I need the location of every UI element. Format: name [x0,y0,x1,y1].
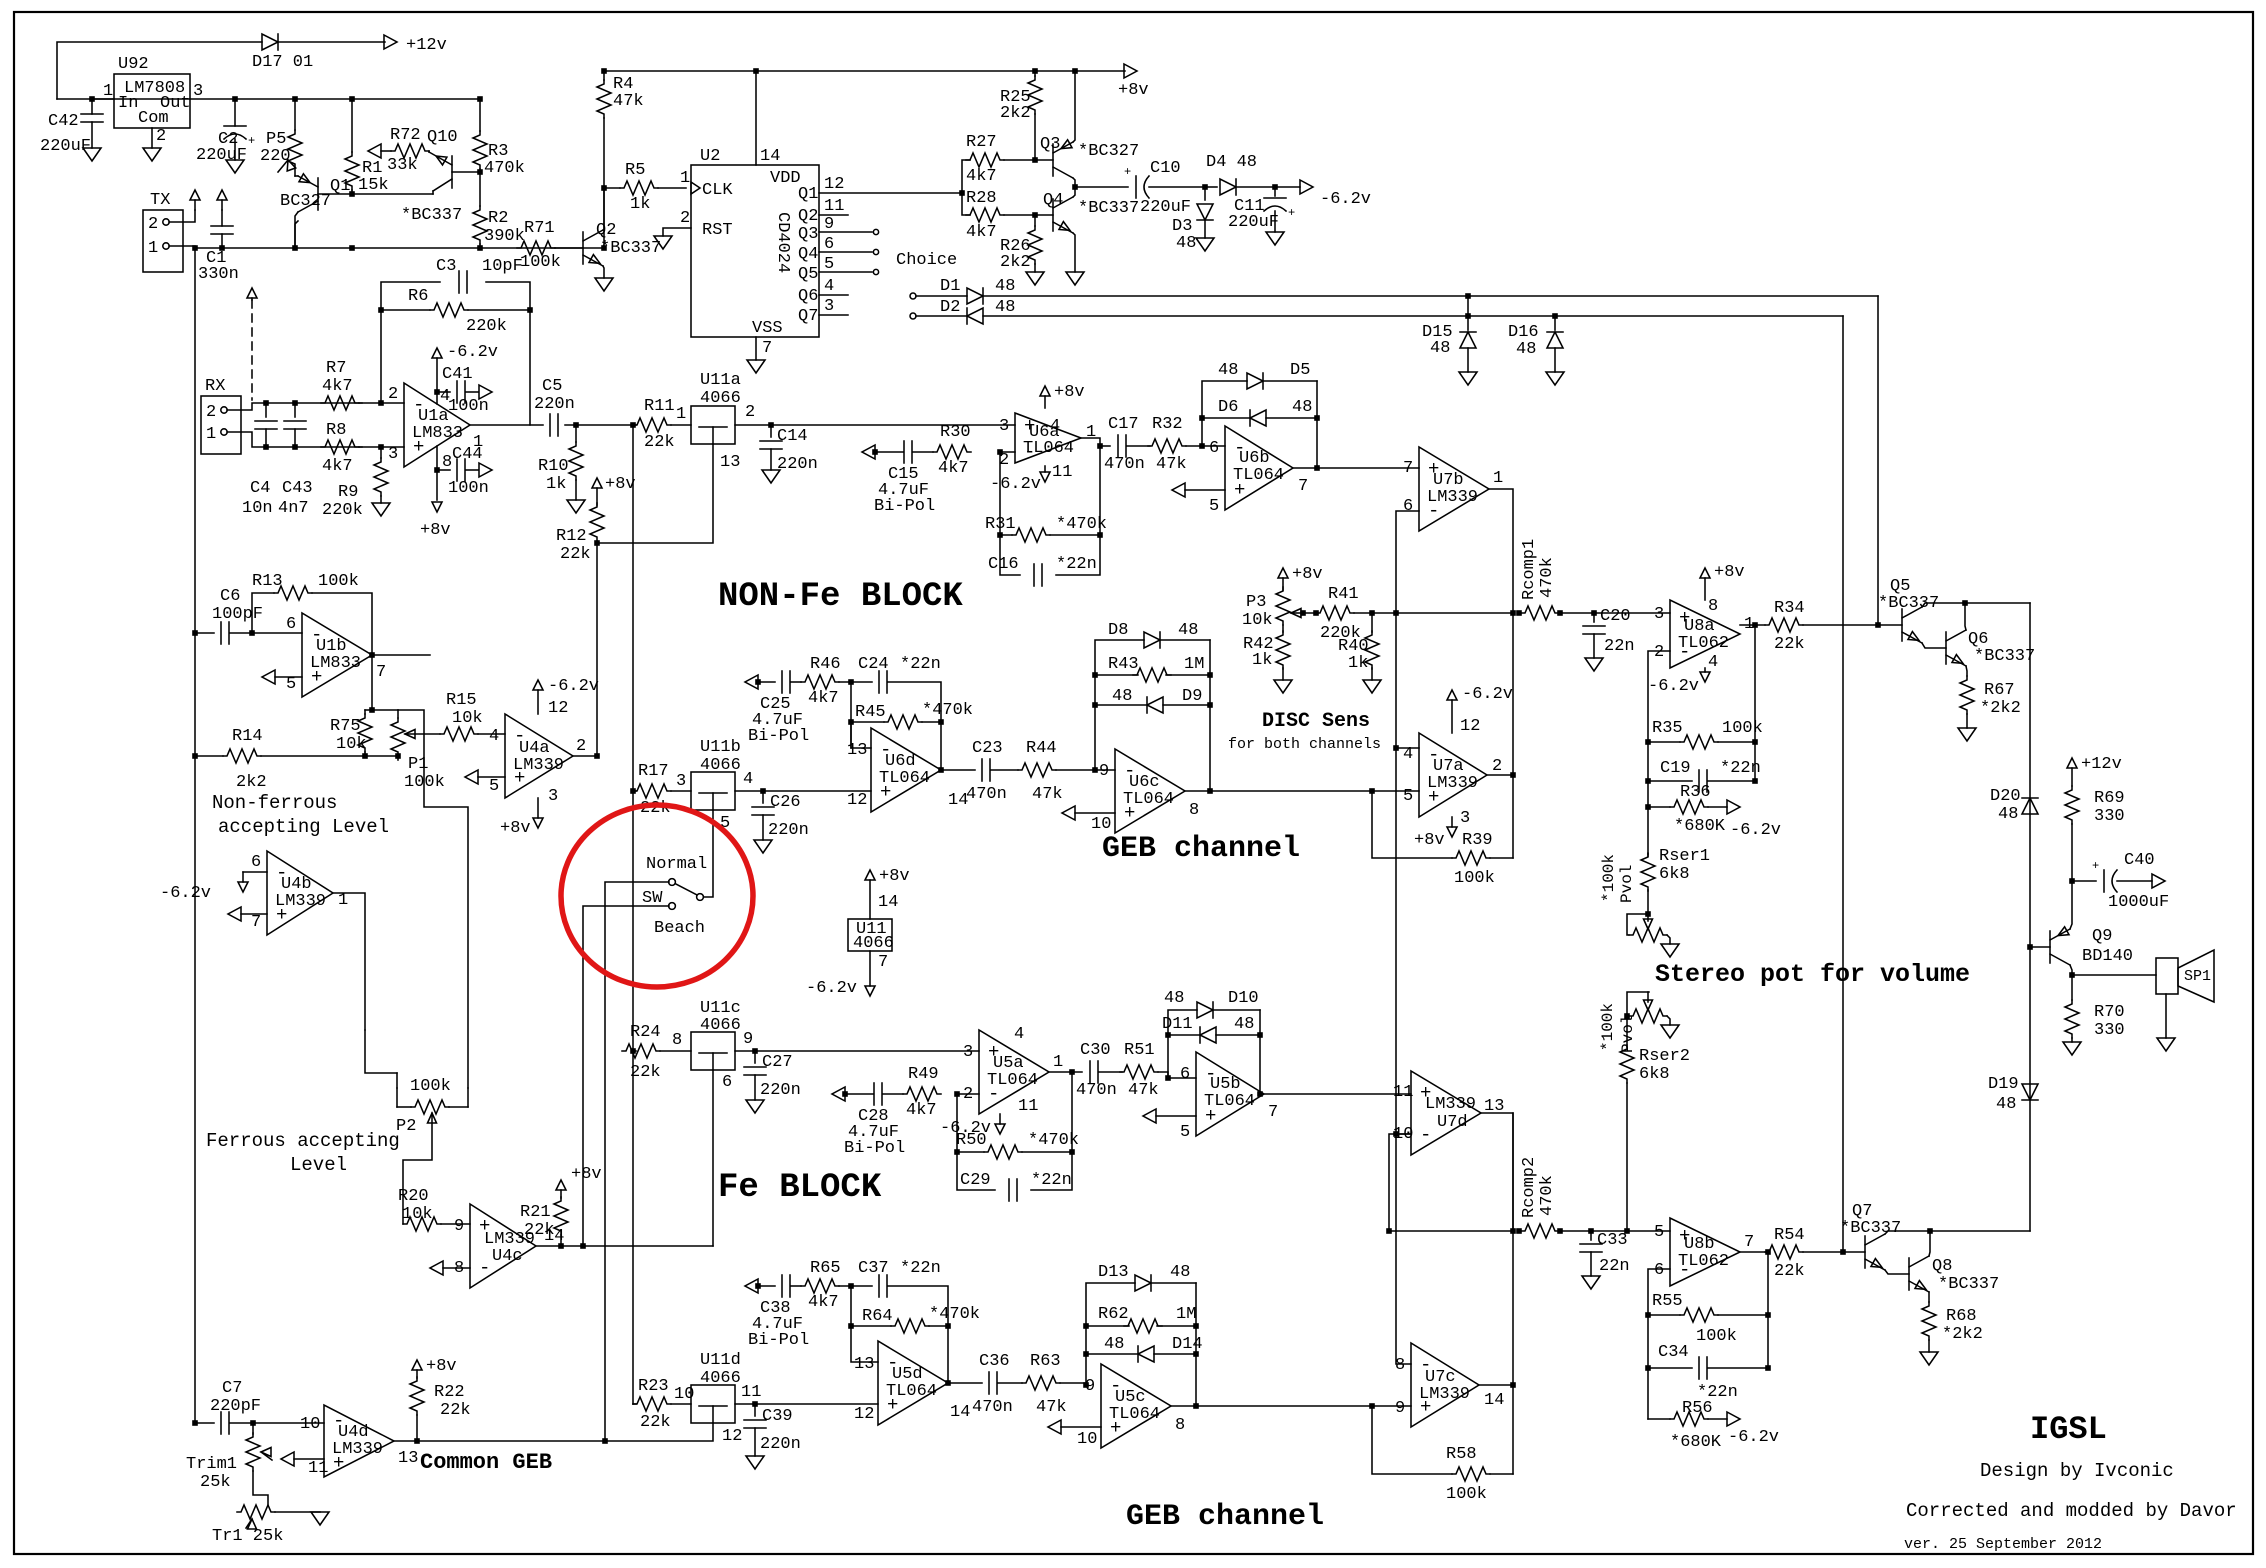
wire [266,402,362,404]
svg-text:D20: D20 [1990,787,2021,806]
wire [851,1285,872,1287]
wire [1050,534,1100,536]
junction [1193,1323,1199,1329]
wire [869,880,871,919]
wire [605,882,669,1441]
wire [1031,1072,1072,1190]
svg-text:4k7: 4k7 [322,457,353,476]
wire [633,1050,636,1052]
transistor Q7 *BC337 [1840,1202,1901,1270]
wire [1965,603,1966,630]
svg-text:R30: R30 [940,423,971,442]
resistor R40 1k [1338,613,1381,693]
junction [1645,804,1651,810]
junction [938,767,944,773]
svg-text:TL064: TL064 [1233,466,1284,485]
arrow into U4c pin8 [430,1261,470,1275]
wire [1293,467,1419,469]
junction [1557,610,1563,616]
svg-text:220uF: 220uF [196,146,247,165]
wire [850,722,852,748]
junction [1369,610,1375,616]
svg-text:R68: R68 [1946,1307,1977,1326]
svg-text:*470k: *470k [929,1305,980,1324]
svg-text:8: 8 [442,453,452,472]
svg-text:D5: D5 [1290,361,1310,380]
junction [192,245,198,251]
junction [434,389,440,395]
svg-text:Level: Level [290,1154,347,1176]
junction [1257,1091,1263,1097]
junction [292,400,298,406]
svg-text:C30: C30 [1080,1041,1111,1060]
junction [1516,1228,1522,1234]
junction [601,245,607,251]
svg-text:+12v: +12v [406,36,447,55]
wire [755,1050,979,1052]
wire [428,151,430,152]
wire [441,1223,470,1225]
wire [486,282,530,310]
node D2 input [910,313,916,319]
wire [603,188,605,248]
wire [1095,640,1144,770]
wire [671,424,691,426]
label version date [1904,1536,2102,1553]
wire [671,1403,691,1405]
label GEB channel (Fe) [1126,1500,1324,1534]
wire [1877,296,1879,626]
junction [349,191,355,197]
wire [1185,790,1419,792]
svg-text:2: 2 [206,403,216,422]
junction [848,679,854,685]
capacitor C20 22n [1583,607,1635,671]
svg-text:4k7: 4k7 [808,1293,839,1312]
svg-text:1: 1 [680,169,690,188]
svg-text:2k2: 2k2 [1000,253,1031,272]
switch U11c 4066 [691,999,753,1092]
capacitor C2 [196,99,255,173]
svg-text:R21: R21 [520,1203,551,1222]
svg-text:22k: 22k [1774,1262,1805,1281]
svg-text:TL064: TL064 [987,1071,1038,1090]
wire [1073,233,1075,272]
wire [1512,1113,1514,1385]
wire [1922,643,1946,648]
svg-text:48: 48 [1178,621,1198,640]
diode D13 48 [1098,1263,1190,1291]
svg-text:48: 48 [1112,687,1132,706]
wire [1559,612,1670,614]
power arrow -6.2v (U1a) [432,343,498,362]
wire [851,681,872,683]
power arrow +8v (R22) [412,1357,457,1378]
junction [1510,772,1516,778]
svg-text:*470k: *470k [922,701,973,720]
power arrow +8v (R12) [592,475,636,494]
resistor R24 22k [622,1023,661,1082]
arrow out of R56 [1708,1412,1740,1426]
resistor R72 33k [381,126,429,175]
svg-text:D9: D9 [1182,687,1202,706]
trimmer P1 100k [391,710,445,792]
wire [983,295,1878,297]
svg-text:Design by Ivconic: Design by Ivconic [1980,1460,2174,1482]
svg-text:6k8: 6k8 [1659,865,1690,884]
resistor R46 4k7 [801,655,841,708]
wire [1396,1134,1411,1364]
junction [477,96,483,102]
wire [1396,613,1419,748]
svg-text:3: 3 [676,772,686,791]
svg-text:TL062: TL062 [1678,634,1729,653]
wire [839,1286,878,1362]
junction [250,1420,256,1426]
wire [916,315,967,317]
junction [1645,778,1651,784]
red circle annotation [561,805,753,987]
power arrow +12v (R69) [2067,755,2122,786]
svg-text:-6.2v: -6.2v [1648,677,1699,696]
svg-text:3: 3 [1460,809,1470,828]
op-amp U8a TL062 [1654,597,1754,672]
svg-text:1: 1 [148,239,158,258]
junction [1202,184,1208,190]
arrow into U4b pin7 [228,907,267,921]
wire [312,593,372,655]
arrow into U6c pin10 [1062,806,1115,820]
capacitor C36 470n [972,1352,1013,1417]
svg-text:1k: 1k [630,195,650,214]
svg-text:12: 12 [722,1427,742,1446]
svg-text:10k: 10k [452,709,483,728]
svg-text:R70: R70 [2094,1003,2125,1022]
junction [1393,610,1399,616]
capacitor C11 220uF [1228,187,1295,245]
svg-text:100k: 100k [1696,1327,1737,1346]
svg-text:R65: R65 [810,1259,841,1278]
junction [1072,68,1078,74]
junction [959,190,965,196]
svg-text:2: 2 [576,737,586,756]
svg-text:C3: C3 [436,257,456,276]
svg-text:ver. 25 September 2012: ver. 25 September 2012 [1904,1536,2102,1553]
svg-text:R63: R63 [1030,1352,1061,1371]
wire [1648,780,1692,782]
switch U11b 4066 [691,738,753,833]
wire [1259,1010,1261,1094]
regulator U92 [103,55,203,146]
wire [1490,857,1513,859]
svg-text:TL064: TL064 [1109,1405,1160,1424]
svg-text:8: 8 [1708,597,1718,616]
svg-text:48: 48 [1176,234,1196,253]
svg-text:6: 6 [1403,497,1413,516]
svg-text:10: 10 [300,1415,320,1434]
svg-text:C10: C10 [1150,159,1181,178]
wire [565,424,636,426]
svg-text:1: 1 [338,891,348,910]
svg-text:1000uF: 1000uF [2108,893,2169,912]
power arrow +8v (U8a) [1700,563,1745,600]
resistor R30 4k7 [933,423,971,478]
resistor R56 *680K [1670,1399,1779,1452]
capacitor C34 *22n [1658,1343,1738,1402]
capacitor C25 4.7uF Bi-Pol [748,671,809,746]
svg-text:C14: C14 [777,427,808,446]
svg-text:+8v: +8v [1414,831,1445,850]
svg-text:U11d: U11d [700,1351,741,1370]
wire [704,810,713,897]
power arrow (TX) [190,190,200,210]
svg-text:D19: D19 [1988,1075,2019,1094]
wire [1354,612,1396,614]
wire [2070,881,2072,929]
svg-text:48: 48 [1430,339,1450,358]
wire [1512,1385,1514,1474]
svg-text:22k: 22k [524,1221,555,1240]
wire [359,402,404,404]
op-amp U6b TL064 [1209,426,1308,516]
junction [1645,1312,1651,1318]
svg-text:2: 2 [156,127,166,146]
wire [478,733,505,735]
junction [752,1048,758,1054]
junction at Pvol 2 [1624,1013,1630,1019]
svg-text:1: 1 [676,405,686,424]
power arrow +8v (P3) [1278,565,1323,590]
wire [1213,1009,1260,1011]
junction [362,753,368,759]
svg-text:22k: 22k [560,545,591,564]
svg-text:CLK: CLK [702,181,733,200]
label U11 pin14 [878,893,898,912]
junction [414,1438,420,1444]
junction [1092,672,1098,678]
wire [660,1050,691,1052]
wire [1842,316,1844,1252]
junction [378,400,384,406]
wire [1303,612,1318,614]
junction [378,307,384,313]
svg-text:BC327: BC327 [280,192,331,211]
svg-text:Bi-Pol: Bi-Pol [874,497,935,516]
wire [1479,1384,1513,1386]
svg-text:6: 6 [251,853,261,872]
svg-text:Q10: Q10 [427,128,458,147]
resistor R35 100k [1652,719,1763,749]
svg-text:*470k: *470k [1028,1131,1079,1150]
svg-text:-6.2v: -6.2v [447,343,498,362]
svg-text:5: 5 [286,675,296,694]
junction [848,1283,854,1289]
resistor R69 330 [2065,786,2125,881]
wire [57,42,262,99]
svg-text:R12: R12 [556,527,587,546]
wire [1389,1230,1512,1232]
trimmer Tr1 25k [212,1505,283,1546]
resistor R11 22k [633,397,675,452]
junction [630,1048,636,1054]
svg-text:C42: C42 [48,112,79,131]
svg-text:R69: R69 [2094,789,2125,808]
svg-text:R32: R32 [1152,415,1183,434]
svg-text:LM339: LM339 [1419,1385,1470,1404]
wire [151,128,153,148]
junction [630,788,636,794]
junction [1193,1351,1199,1357]
junction [1752,622,1758,628]
capacitor C23 470n [966,739,1007,804]
IC U2 CD4024 [680,147,844,358]
wire [275,1511,320,1513]
svg-text:R17: R17 [638,762,669,781]
power arrow +8v (R21) [520,1165,602,1240]
power arrow -6.2v (U7a) [1447,685,1513,733]
svg-text:22k: 22k [640,1413,671,1432]
wire [381,310,430,403]
svg-text:220: 220 [260,147,291,166]
label U1a pin8 [442,453,452,472]
ground under Q4 [1066,272,1084,285]
junction [1645,1365,1651,1371]
power arrow -6.2v (U6a) [990,466,1050,494]
svg-text:+8v: +8v [500,819,531,838]
svg-text:C44: C44 [452,445,483,464]
label U11c pin8 [672,1031,682,1050]
wire [603,188,604,230]
svg-text:220pF: 220pF [210,1397,261,1416]
svg-text:LM833: LM833 [310,654,361,673]
svg-text:+8v: +8v [605,475,636,494]
wire [962,193,970,215]
wire [1372,791,1452,858]
junction [192,1420,198,1426]
wire [712,1070,714,1246]
wire [957,1152,995,1190]
junction [1875,622,1881,628]
svg-text:C29: C29 [960,1171,991,1190]
svg-text:10k: 10k [402,1205,433,1224]
label Non-ferrous accepting Level [212,792,389,838]
arrow out of R36 [1708,800,1740,814]
junction [594,540,600,546]
svg-text:5: 5 [1403,787,1413,806]
svg-text:22n: 22n [1599,1257,1630,1276]
svg-text:470n: 470n [966,785,1007,804]
junction [1069,1069,1075,1075]
junction [249,630,255,636]
svg-text:P3: P3 [1246,593,1266,612]
arrow into U5b pin5 [1143,1109,1196,1123]
wire [1803,624,1902,626]
svg-text:100pF: 100pF [212,605,263,624]
junction [2069,972,2075,978]
svg-text:In: In [118,94,138,113]
diode D1 48 [940,277,1015,304]
wire [1000,535,1020,575]
trimmer Trim1 25k [186,1423,272,1492]
svg-text:D17 01: D17 01 [252,53,313,72]
svg-text:25k: 25k [200,1473,231,1492]
svg-text:R58: R58 [1446,1445,1477,1464]
svg-text:R10: R10 [538,457,569,476]
wire [1263,380,1317,382]
wire [957,1093,979,1095]
diode D2 48 [940,298,1015,324]
junction [369,652,375,658]
svg-text:48: 48 [1104,1335,1124,1354]
junction [2069,878,2075,884]
junction [527,307,533,313]
capacitor C14 220n [760,425,818,483]
op-amp U6c TL064 [1091,749,1199,834]
svg-text:R46: R46 [810,655,841,674]
label GEB channel (non-Fe) [1102,832,1300,866]
junction [1083,1351,1089,1357]
wire [436,358,438,392]
svg-text:11: 11 [1052,463,1072,482]
wire [1803,1251,1865,1253]
svg-text:Q7: Q7 [798,307,818,326]
wire [266,446,362,448]
junction [1752,778,1758,784]
resistor R31 *470k [985,515,1107,542]
wire [1056,446,1100,575]
svg-text:C23: C23 [972,739,1003,758]
svg-text:VSS: VSS [752,319,783,338]
svg-text:100k: 100k [1454,869,1495,888]
svg-text:7: 7 [1744,1233,1754,1252]
svg-text:C24: C24 [858,655,889,674]
connector RX [201,377,241,454]
ground under R26 [1026,272,1044,285]
wire [991,769,1018,771]
resistor R27 4k7 [966,133,1004,186]
svg-text:14: 14 [760,147,780,166]
junction [369,707,375,713]
op-amp U5d TL064 [854,1341,970,1425]
svg-text:13: 13 [847,741,867,760]
svg-text:TL064: TL064 [1123,790,1174,809]
resistor R65 4k7 [801,1259,841,1312]
svg-text:2: 2 [680,209,690,228]
svg-text:8: 8 [1189,801,1199,820]
resistor R54 22k [1765,1226,1805,1281]
svg-text:22k: 22k [440,1401,471,1420]
svg-text:2k2: 2k2 [236,773,267,792]
svg-text:P1: P1 [408,755,428,774]
junction [1588,1228,1594,1234]
wire [398,710,468,1088]
svg-text:C4: C4 [250,479,270,498]
svg-text:TX: TX [150,191,170,210]
svg-text:Normal: Normal [646,855,707,874]
svg-text:47k: 47k [1036,1398,1067,1417]
svg-text:10pF: 10pF [482,257,523,276]
svg-text:-: - [1420,1124,1431,1146]
power arrow -6.2v (U4a) [533,677,599,714]
wire [1389,1134,1411,1231]
svg-text:7: 7 [762,339,772,358]
svg-text:-6.2v: -6.2v [1320,190,1371,209]
capacitor C28 4.7uF Bi-Pol [844,1083,905,1158]
wire [1885,1231,2030,1234]
capacitor C30 470n [1076,1041,1117,1100]
resistor R55 100k [1652,1292,1737,1346]
svg-text:U11b: U11b [700,738,741,757]
